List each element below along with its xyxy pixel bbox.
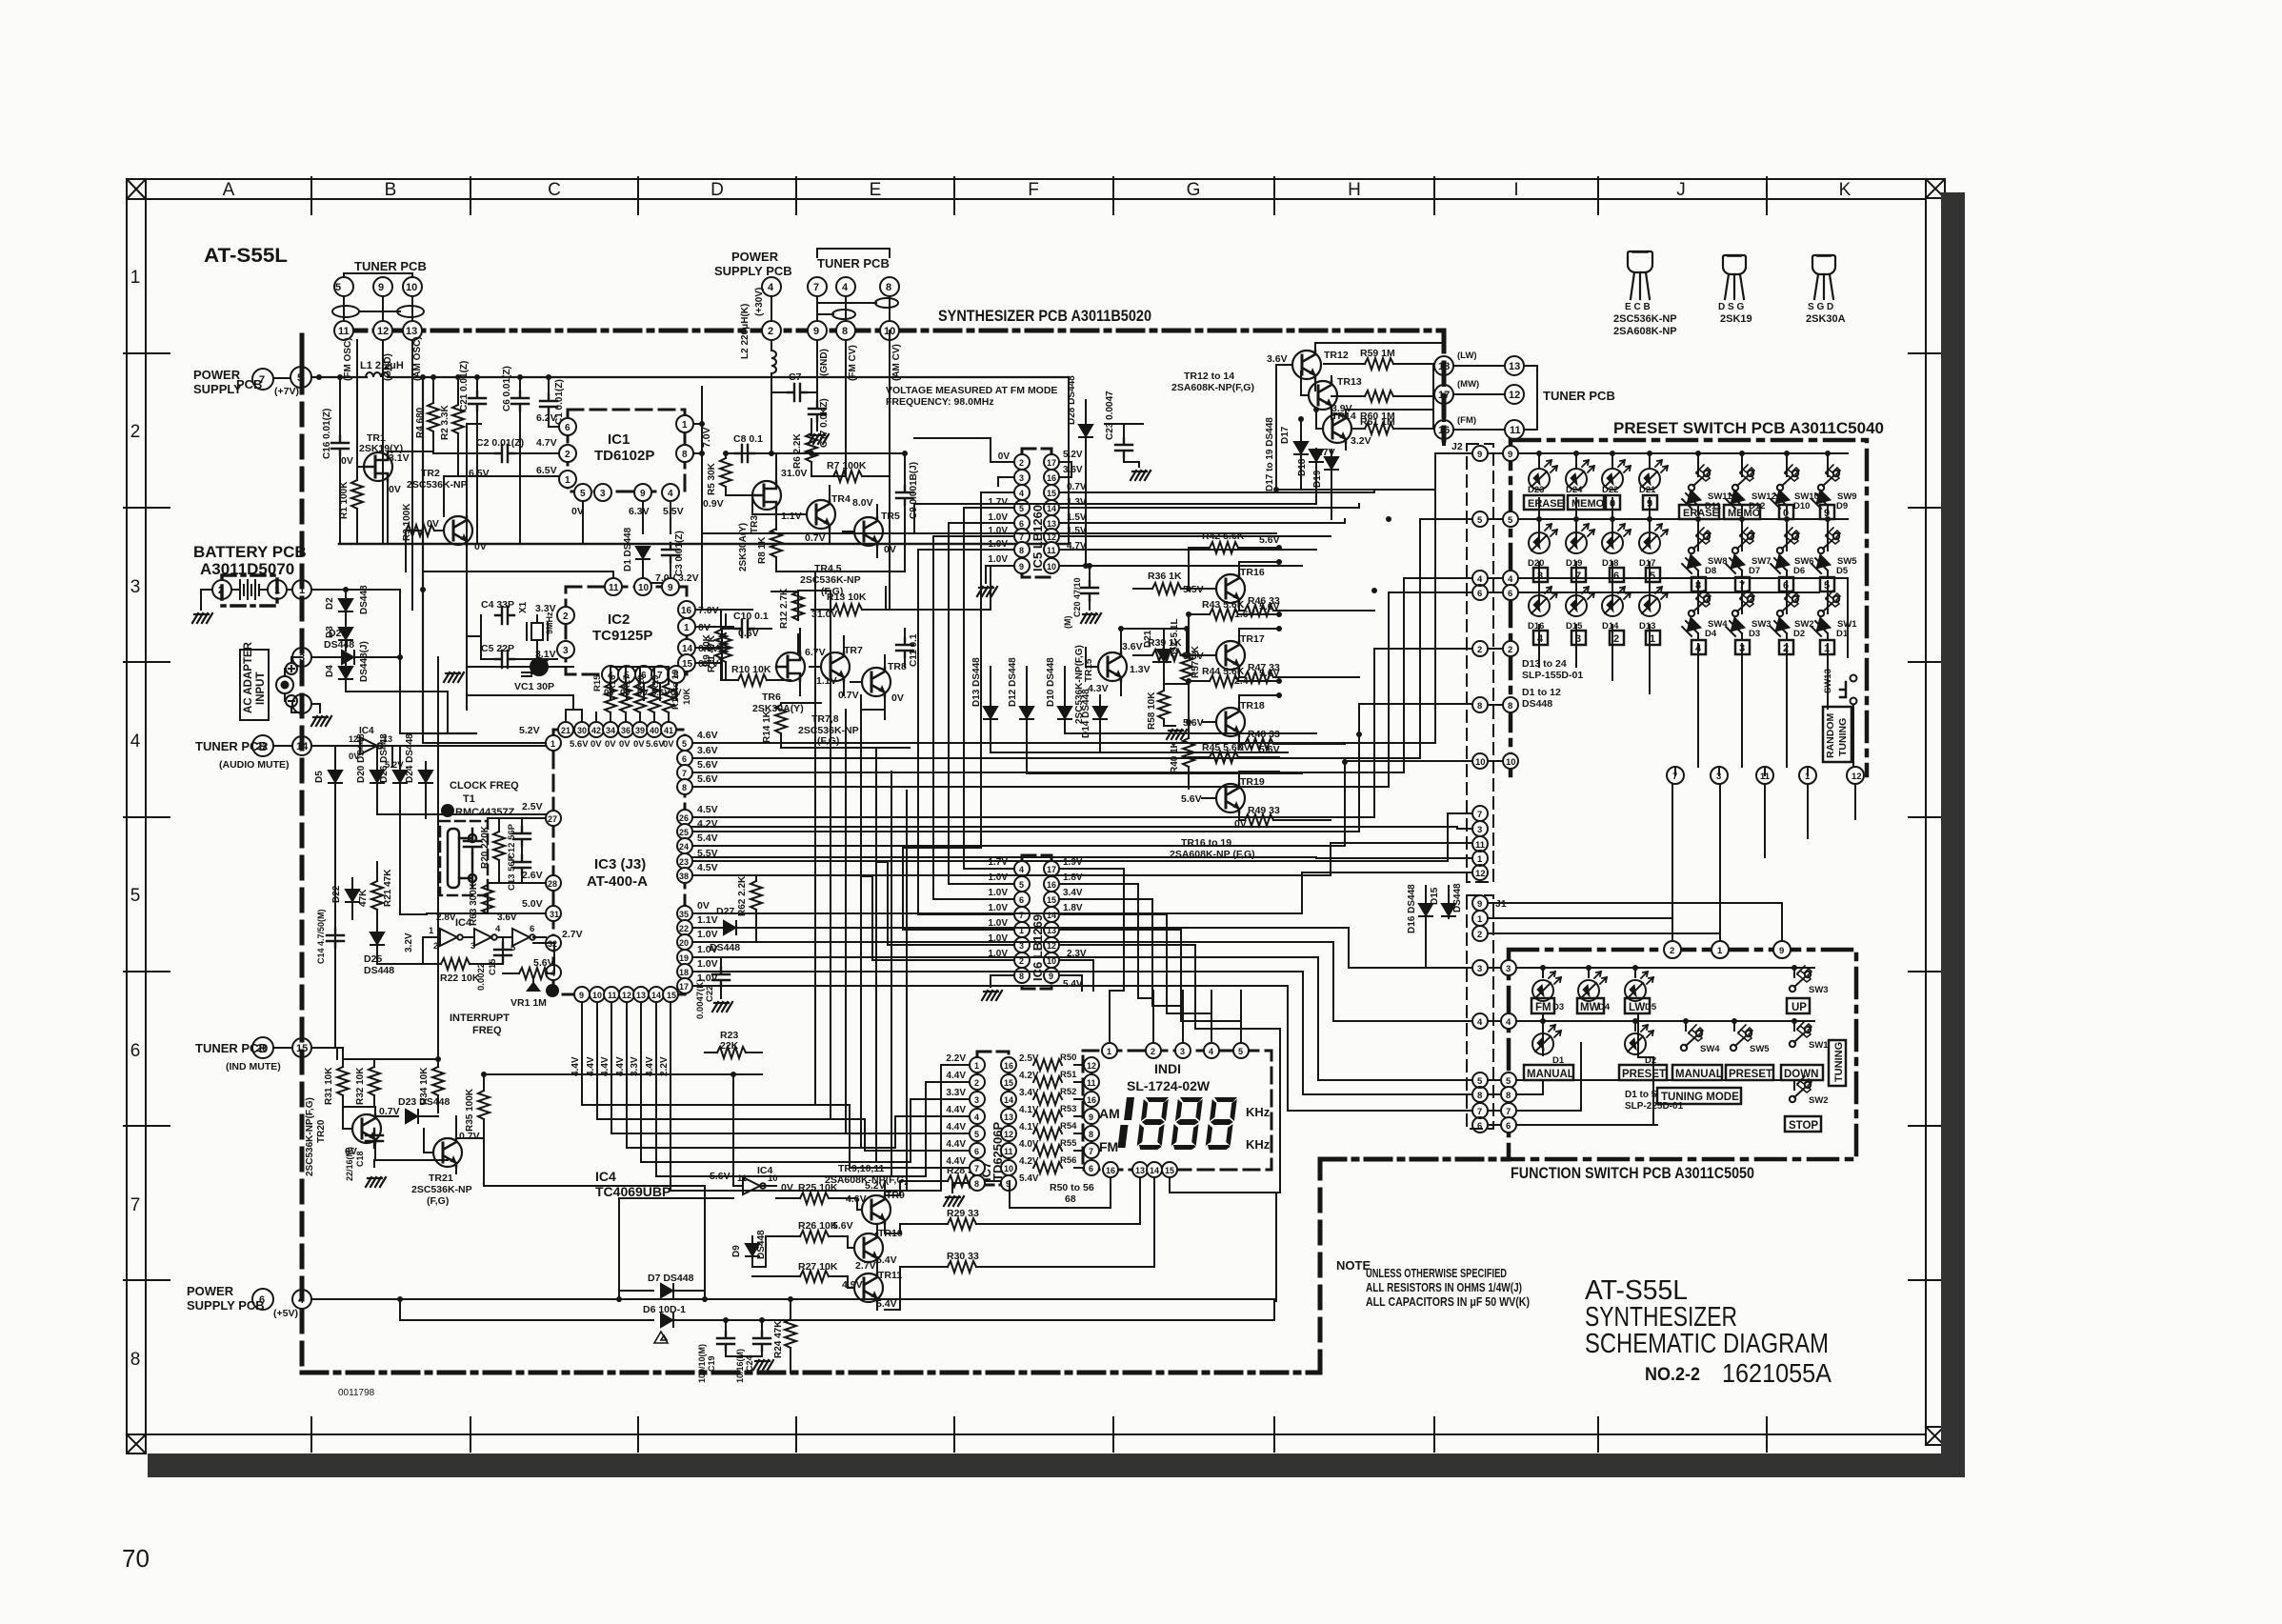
resistor R30 33	[900, 1251, 1010, 1273]
box TUNING MODE	[1657, 1088, 1741, 1104]
svg-text:TR12: TR12	[1324, 350, 1349, 361]
svg-text:0V: 0V	[663, 739, 674, 750]
svg-text:(AM CV): (AM CV)	[891, 344, 902, 381]
resistor R44 5.6K	[1189, 666, 1280, 722]
svg-text:E: E	[870, 180, 882, 200]
svg-text:C10 0.1: C10 0.1	[733, 611, 769, 622]
svg-text:0.9V: 0.9V	[703, 498, 724, 510]
svg-text:5.6V: 5.6V	[1259, 668, 1280, 679]
box STOP	[1785, 1116, 1821, 1132]
svg-text:5.6V: 5.6V	[1259, 601, 1280, 612]
box ERASE	[1524, 495, 1564, 510]
LED D1 fn	[1532, 1025, 1565, 1066]
svg-text:3: 3	[974, 1095, 979, 1105]
svg-text:4: 4	[1508, 574, 1513, 585]
svg-text:8: 8	[1019, 546, 1024, 555]
diode D1 preset	[1812, 618, 1849, 640]
svg-text:15: 15	[1047, 895, 1056, 905]
capacitor C5	[481, 643, 557, 668]
diode D22	[331, 878, 369, 919]
svg-text:D3: D3	[1749, 629, 1760, 639]
svg-text:DOWN: DOWN	[1784, 1069, 1818, 1080]
resistor R1	[339, 480, 363, 544]
capacitor C22	[692, 957, 730, 1019]
svg-text:MW: MW	[1580, 1002, 1600, 1013]
IC1 pin 1	[536, 465, 576, 488]
preset bottom connectors	[1667, 767, 1864, 784]
tuner PCB 20 ind mute	[195, 1041, 281, 1073]
diode D4 preset	[1682, 618, 1717, 640]
connector 2 battery	[201, 580, 231, 610]
svg-text:TUNER PCB: TUNER PCB	[817, 256, 890, 271]
diode D2 preset	[1771, 618, 1805, 640]
diode D10 preset	[1771, 491, 1810, 514]
svg-text:X1: X1	[518, 601, 529, 613]
svg-text:FREQ: FREQ	[472, 1025, 502, 1036]
ground IC6	[982, 991, 1002, 1000]
svg-text:VC1 30P: VC1 30P	[514, 681, 554, 692]
svg-text:6: 6	[974, 1147, 979, 1156]
svg-text:D6 10D-1: D6 10D-1	[643, 1304, 686, 1315]
svg-text:R10 10K: R10 10K	[731, 664, 771, 675]
resistor R47 33	[1239, 662, 1295, 683]
resistor R12 2.7K	[779, 588, 837, 629]
svg-text:68: 68	[1065, 1193, 1076, 1205]
svg-text:R15: R15	[592, 674, 603, 692]
svg-text:J: J	[1676, 180, 1686, 200]
wire R28 net	[885, 1181, 1010, 1208]
svg-text:5.6V: 5.6V	[697, 773, 718, 785]
box 5 2	[1820, 577, 1834, 591]
svg-text:0.7V: 0.7V	[838, 690, 859, 701]
IC3 bottom pins	[570, 987, 678, 1076]
wire bus IC3 to J2 pin 7	[692, 813, 1471, 861]
resistor R48 33	[1239, 729, 1295, 750]
svg-text:1: 1	[684, 623, 690, 633]
transistor TR7	[810, 636, 863, 695]
svg-text:8: 8	[682, 783, 687, 792]
svg-text:INDI: INDI	[1154, 1061, 1181, 1076]
display top pins	[1102, 991, 1249, 1058]
svg-text:MANUAL: MANUAL	[1527, 1069, 1574, 1080]
svg-text:1: 1	[130, 268, 141, 288]
wire bus y915 to J2 pin 12	[692, 872, 1471, 913]
resistor R23 22K	[705, 1030, 762, 1058]
svg-text:D4: D4	[325, 665, 335, 677]
connector 16/11 FM	[1434, 366, 1537, 444]
svg-text:R13 10K: R13 10K	[827, 591, 867, 603]
IC7 box TD62506P	[977, 1052, 1009, 1185]
svg-text:INTERRUPT: INTERRUPT	[450, 1012, 510, 1024]
svg-text:5.2V: 5.2V	[519, 725, 540, 736]
connector 1 synth	[292, 580, 346, 599]
svg-text:(M): (M)	[1063, 616, 1072, 630]
capacitor C6	[502, 366, 529, 544]
svg-text:R9 10K: R9 10K	[702, 633, 712, 667]
resistor R59 1M	[1324, 348, 1433, 370]
IC1 bottom pins 5 3 9 4	[571, 484, 684, 533]
svg-text:9: 9	[579, 991, 584, 1000]
box MW	[1577, 998, 1604, 1013]
svg-text:C18: C18	[355, 1151, 365, 1167]
svg-text:10: 10	[1004, 1164, 1013, 1173]
switch SW7	[1732, 528, 1772, 567]
function connectors top 2 1 9	[1489, 784, 1855, 958]
note text	[1336, 1258, 1530, 1309]
svg-text:1.9V: 1.9V	[1063, 857, 1083, 868]
svg-text:R18: R18	[636, 675, 647, 692]
svg-text:4: 4	[1019, 489, 1024, 498]
resistor R55	[1017, 1138, 1077, 1156]
box MEMO 2	[1724, 505, 1761, 519]
IC5 left pins	[918, 451, 1030, 583]
switch SW4 fn	[1681, 1025, 1721, 1054]
LED D24	[1566, 460, 1594, 495]
svg-text:1.1V: 1.1V	[781, 511, 802, 522]
svg-text:15: 15	[682, 659, 693, 670]
svg-text:4.6V: 4.6V	[697, 730, 718, 741]
svg-text:2: 2	[1477, 645, 1482, 655]
svg-text:8: 8	[886, 282, 891, 293]
svg-text:TR20: TR20	[316, 1119, 327, 1143]
diode D16 j	[1407, 884, 1471, 968]
svg-text:2.2V: 2.2V	[659, 1056, 670, 1076]
svg-text:S G D: S G D	[1808, 302, 1833, 312]
resistor R56	[1017, 1155, 1076, 1173]
svg-text:8.0V: 8.0V	[852, 497, 873, 509]
svg-text:16: 16	[1106, 1166, 1115, 1175]
capacitor C16	[322, 377, 349, 544]
capacitor C23	[1105, 391, 1143, 467]
ground IC3 top	[444, 672, 464, 682]
wire D-row joins	[335, 746, 546, 964]
svg-text:R55: R55	[1060, 1138, 1077, 1149]
svg-text:C: C	[548, 180, 561, 200]
svg-text:5.6V: 5.6V	[697, 759, 718, 771]
svg-text:IC5 LB1260: IC5 LB1260	[1031, 505, 1045, 571]
svg-text:R16: R16	[608, 675, 618, 692]
svg-text:SLP-155D-01: SLP-155D-01	[1522, 670, 1583, 681]
switch SW3 preset	[1732, 591, 1772, 630]
svg-text:10: 10	[768, 1173, 778, 1184]
diode D17	[1280, 419, 1308, 490]
svg-text:C19: C19	[707, 1355, 716, 1372]
resistor R25 10K	[781, 1182, 857, 1204]
svg-text:(F,G): (F,G)	[817, 735, 839, 747]
svg-text:SLP-225D-01: SLP-225D-01	[1625, 1101, 1684, 1112]
svg-text:5: 5	[1477, 515, 1483, 526]
svg-text:C5 22P: C5 22P	[481, 643, 514, 654]
svg-text:7.0V: 7.0V	[701, 427, 712, 448]
svg-text:R24 47K: R24 47K	[773, 1320, 784, 1358]
resistor R7 100K	[811, 460, 890, 482]
svg-text:TR17: TR17	[1240, 633, 1265, 645]
switch SW8	[1689, 528, 1728, 567]
svg-text:1: 1	[429, 926, 434, 936]
svg-text:IC2: IC2	[608, 612, 630, 628]
capacitor C2	[433, 437, 559, 462]
svg-text:0V: 0V	[341, 455, 353, 467]
svg-text:6.5V: 6.5V	[536, 465, 557, 476]
svg-text:IC4: IC4	[455, 917, 472, 929]
svg-text:0.0022: 0.0022	[476, 963, 487, 991]
transistor TR2 2SC536K	[407, 468, 490, 557]
svg-text:R61 1M: R61 1M	[1360, 416, 1395, 428]
svg-text:PRESET: PRESET	[1729, 1069, 1772, 1080]
svg-text:9: 9	[1779, 946, 1784, 956]
transistor TR8	[838, 655, 907, 710]
capacitor C1	[540, 377, 565, 427]
svg-text:5: 5	[510, 943, 516, 953]
svg-text:24: 24	[679, 842, 689, 852]
IC4 inverter a	[429, 912, 472, 952]
svg-text:9MHz: 9MHz	[545, 612, 554, 634]
svg-text:D4: D4	[1705, 629, 1717, 639]
svg-text:4: 4	[842, 282, 849, 293]
svg-text:1: 1	[274, 585, 280, 596]
seven segment digits 1888	[1117, 1097, 1237, 1150]
svg-text:(FM CV): (FM CV)	[848, 345, 858, 381]
svg-text:VR1 1M: VR1 1M	[510, 997, 547, 1009]
svg-text:9: 9	[1508, 450, 1512, 460]
svg-text:21: 21	[561, 726, 570, 735]
switch SW4 preset	[1689, 591, 1729, 630]
function row wires	[1517, 968, 1814, 1125]
transistor TR15	[1074, 629, 1151, 724]
svg-text:D1 DS448: D1 DS448	[623, 527, 633, 571]
svg-text:3: 3	[1019, 473, 1024, 483]
svg-text:16: 16	[1047, 473, 1056, 483]
wire left verticals under battery	[400, 590, 448, 1067]
svg-text:5: 5	[580, 489, 586, 499]
svg-text:5.6V: 5.6V	[1259, 744, 1280, 755]
wire bus y868 to J2 pin 3	[692, 827, 1471, 829]
svg-text:2.7V: 2.7V	[562, 929, 583, 940]
svg-text:(+7V): (+7V)	[274, 386, 299, 397]
svg-text:3: 3	[1506, 964, 1511, 974]
svg-text:11: 11	[1475, 840, 1486, 851]
transistor TR3 2SK30A	[738, 453, 807, 571]
box 0	[1606, 495, 1620, 510]
resistor R2	[440, 377, 464, 476]
LED D4 fn	[1578, 972, 1611, 1012]
interrupt freq label	[450, 1012, 510, 1036]
svg-text:2SC536K-NP: 2SC536K-NP	[1613, 313, 1677, 325]
diode D11	[1682, 491, 1722, 514]
wire IC3 top-left	[467, 667, 582, 710]
box MANUAL fn2	[1672, 1065, 1723, 1080]
zener D21 05Z-5.1L	[1143, 618, 1180, 684]
svg-text:D5: D5	[1645, 1002, 1657, 1012]
transistor TR5	[843, 505, 900, 557]
label TR9,10,11	[825, 1163, 908, 1186]
ground IC5	[977, 587, 997, 596]
resistor R51	[1017, 1070, 1077, 1088]
label R50 to 56	[1050, 1182, 1094, 1205]
svg-text:1.1V: 1.1V	[816, 675, 837, 687]
svg-text:5.4V: 5.4V	[1019, 1173, 1039, 1184]
svg-text:(FM OSC): (FM OSC)	[343, 337, 353, 381]
svg-text:R7 100K: R7 100K	[827, 460, 867, 471]
svg-text:8: 8	[1537, 571, 1543, 582]
ground C22	[712, 1002, 732, 1012]
svg-text:RMC44357Z: RMC44357Z	[455, 807, 515, 818]
svg-text:22K: 22K	[720, 1040, 739, 1052]
svg-text:D18: D18	[1297, 458, 1308, 476]
transistor cluster TR19	[1181, 772, 1265, 830]
svg-text:35: 35	[679, 910, 689, 919]
wire R30 net	[885, 1267, 1010, 1310]
svg-text:SW2: SW2	[1809, 1095, 1829, 1106]
box 4	[1533, 631, 1548, 645]
diode D27 DS448	[692, 906, 756, 953]
svg-text:SUPPLY: SUPPLY	[193, 382, 242, 396]
svg-text:13: 13	[1047, 519, 1056, 529]
svg-text:D5: D5	[1836, 566, 1849, 576]
svg-text:D20 DS448: D20 DS448	[356, 733, 367, 783]
capacitor C15	[476, 943, 511, 991]
svg-text:1.0V: 1.0V	[988, 526, 1008, 536]
display INDI box	[1083, 1051, 1271, 1170]
svg-text:AM: AM	[1099, 1106, 1120, 1121]
svg-text:UP: UP	[1792, 1002, 1807, 1013]
IC2 left pins 2 3	[535, 603, 574, 660]
svg-text:11: 11	[1510, 425, 1521, 436]
svg-text:1.0V: 1.0V	[988, 872, 1008, 883]
svg-text:9: 9	[668, 583, 673, 593]
IC2 top pins 11 10 9	[605, 578, 679, 595]
IC5 right pins	[1044, 450, 1176, 573]
svg-text:AC ADAPTER: AC ADAPTER	[243, 641, 254, 713]
AC adapter input box	[240, 641, 302, 720]
wire rail drops	[383, 340, 583, 610]
clock oscillator box T1	[440, 821, 488, 895]
J1 connector column	[1467, 895, 1493, 1129]
resistor R39 1K	[1133, 637, 1202, 661]
svg-text:TUNING: TUNING	[1837, 718, 1849, 756]
svg-text:30: 30	[577, 726, 587, 735]
svg-text:7: 7	[1089, 1147, 1093, 1156]
svg-text:(FM): (FM)	[1457, 415, 1476, 426]
svg-text:2SK30A: 2SK30A	[1806, 313, 1846, 325]
transistor TR9	[846, 1180, 905, 1233]
crystal X1 9MHz	[518, 601, 554, 648]
wire IC5 right stubs to staircase	[1105, 490, 1374, 566]
diode D9 preset	[1812, 491, 1848, 514]
svg-text:D27: D27	[716, 906, 734, 917]
svg-text:1: 1	[974, 1061, 979, 1071]
IC1 box	[568, 410, 685, 491]
display KHz labels	[1246, 1105, 1271, 1152]
svg-text:T1: T1	[463, 793, 475, 805]
svg-text:D23 DS448: D23 DS448	[398, 1096, 450, 1108]
resistor R28 33	[900, 1165, 1010, 1187]
svg-text:2SC536K-NP: 2SC536K-NP	[407, 479, 468, 491]
diode D25	[364, 919, 394, 976]
LED D23	[1528, 460, 1557, 495]
svg-text:3.6V: 3.6V	[697, 745, 718, 756]
svg-text:F: F	[1028, 180, 1039, 200]
svg-text:R39 1K: R39 1K	[1148, 637, 1182, 649]
svg-text:D: D	[711, 180, 724, 200]
resistor R29 33	[900, 1208, 1010, 1230]
wire bus IC3 to J2 row 9	[692, 453, 1471, 743]
wire TR3 area rails	[726, 377, 905, 571]
preset row wires	[1519, 453, 1848, 657]
wire TR15 zone	[1121, 629, 1187, 726]
transistor TR14	[1314, 410, 1371, 458]
svg-text:TUNING: TUNING	[1833, 1042, 1845, 1082]
svg-text:5.6V: 5.6V	[1181, 793, 1202, 805]
svg-text:14: 14	[682, 644, 693, 654]
switch SW10	[1777, 465, 1819, 502]
IC6 left pins	[872, 857, 1030, 987]
svg-text:15: 15	[1004, 1078, 1013, 1088]
svg-text:0V: 0V	[389, 484, 401, 495]
wire mid horizontals row4	[702, 610, 791, 680]
svg-text:(IND MUTE): (IND MUTE)	[226, 1061, 281, 1073]
svg-text:7: 7	[130, 1195, 141, 1215]
svg-text:5: 5	[682, 739, 687, 749]
resistor R46 33	[1239, 595, 1295, 616]
svg-text:R50: R50	[1060, 1053, 1076, 1063]
J2 right-side pins	[1489, 446, 1518, 769]
box 1	[1646, 631, 1660, 645]
wire battery rail to right	[346, 590, 448, 733]
connector 15	[292, 1038, 343, 1057]
svg-text:TC9125P: TC9125P	[592, 628, 652, 644]
svg-text:R20 220K: R20 220K	[480, 825, 490, 869]
resistor R11 47K	[707, 628, 759, 672]
resistor R40 1K	[1170, 722, 1194, 789]
IC4 inverter d	[710, 1074, 793, 1194]
svg-text:R22 10K: R22 10K	[440, 972, 480, 984]
svg-text:2.2V: 2.2V	[946, 1053, 966, 1064]
svg-text:4.6V: 4.6V	[846, 1193, 867, 1205]
resistor R57 1K	[1181, 629, 1201, 684]
svg-text:D15: D15	[1430, 887, 1440, 905]
svg-text:1.0V: 1.0V	[988, 903, 1008, 913]
clock freq label	[450, 780, 519, 818]
diode D18	[1297, 449, 1323, 504]
svg-text:11: 11	[1087, 1078, 1096, 1088]
svg-text:3.6V: 3.6V	[1063, 465, 1083, 475]
ground R58	[1167, 730, 1187, 739]
wire bus y900 to J2 pin 1	[692, 857, 1471, 858]
svg-text:10: 10	[1506, 757, 1516, 768]
wire misc verticals E column	[811, 331, 1069, 610]
svg-text:C6 0.01(Z): C6 0.01(Z)	[502, 366, 512, 411]
wire IC5 pins to mesh verticals	[903, 438, 991, 914]
svg-text:20: 20	[256, 1043, 268, 1054]
svg-text:2SC536K-NP: 2SC536K-NP	[411, 1184, 472, 1195]
svg-text:KHz: KHz	[1246, 1105, 1271, 1119]
capacitor C24	[726, 1320, 771, 1383]
svg-text:CLOCK FREQ: CLOCK FREQ	[450, 780, 519, 792]
LED D21 preset	[1639, 460, 1668, 495]
svg-text:AT-S55L: AT-S55L	[204, 245, 288, 267]
diode D12 preset	[1726, 491, 1765, 514]
wire bus IC3 to J2 row 6	[692, 592, 1471, 787]
box LW	[1625, 998, 1650, 1013]
resistor R45 5.6K	[1189, 742, 1280, 772]
svg-text:3.3V: 3.3V	[946, 1088, 966, 1098]
svg-text:I: I	[1513, 180, 1518, 200]
svg-text:R30 33: R30 33	[947, 1251, 979, 1262]
connector 20	[252, 1037, 292, 1058]
LED D20	[1528, 524, 1557, 569]
svg-text:3: 3	[1477, 825, 1482, 835]
